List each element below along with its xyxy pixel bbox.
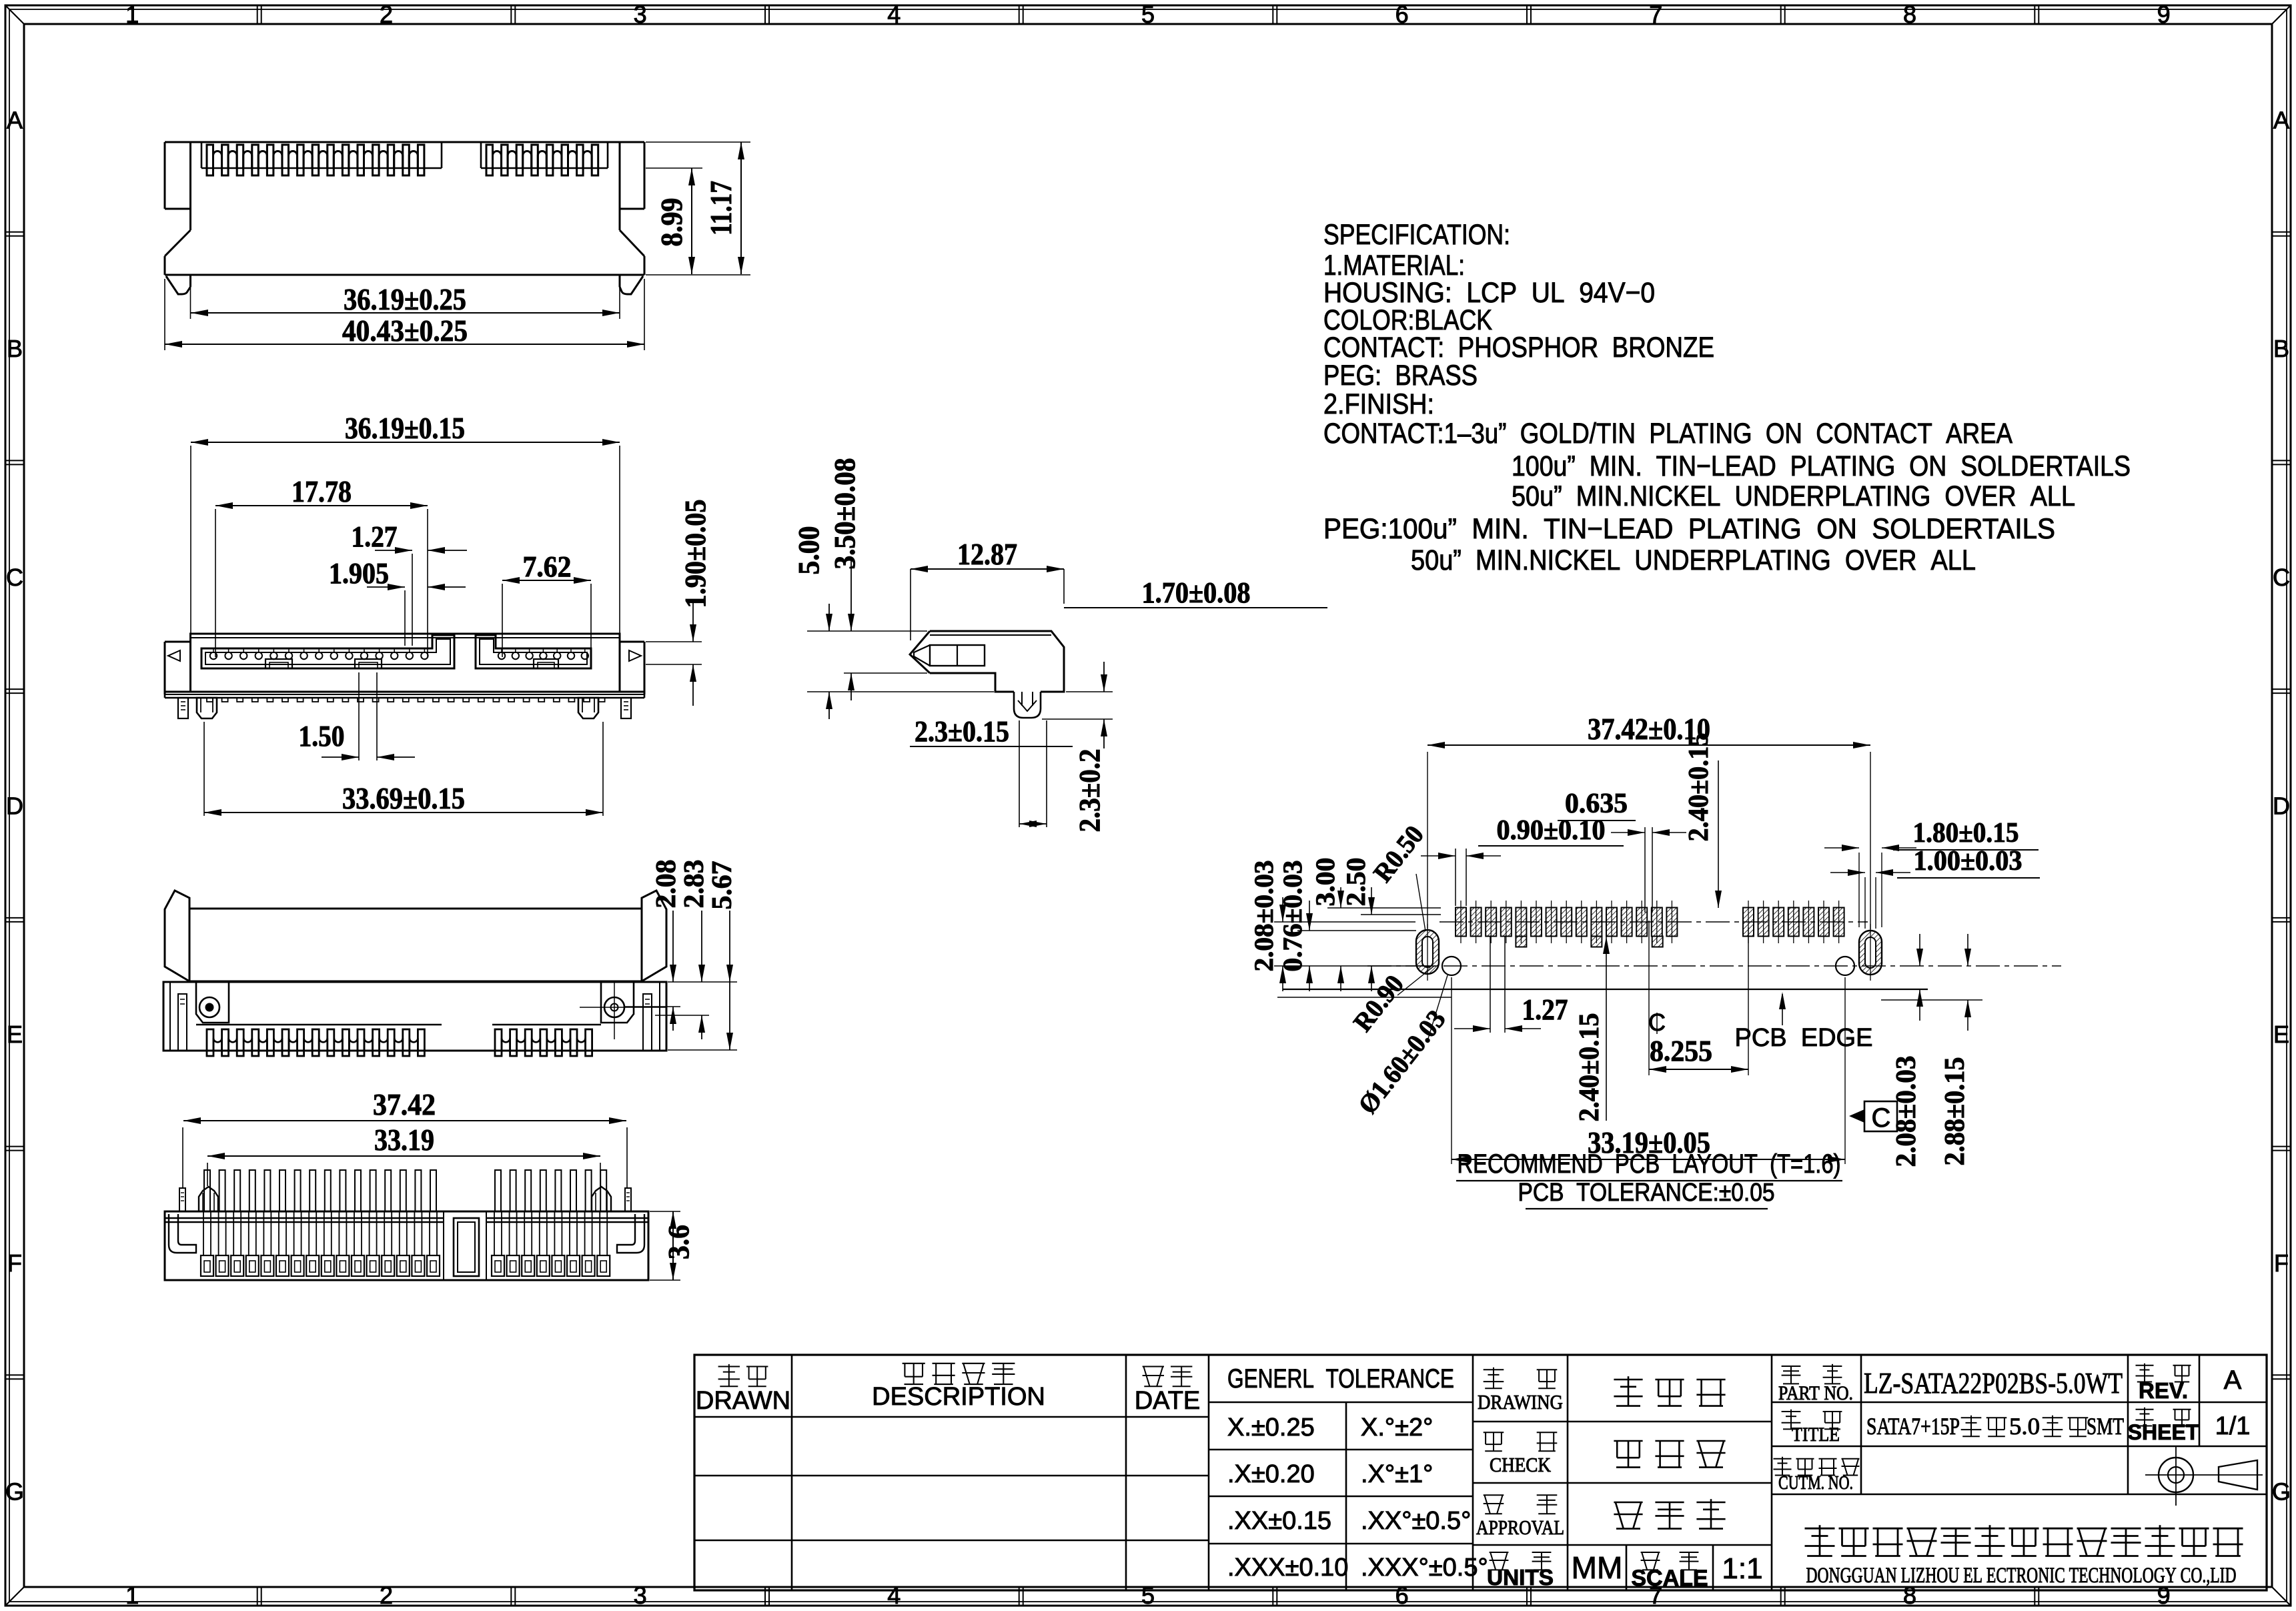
svg-text:DATE: DATE	[1135, 1387, 1201, 1415]
svg-text:PART NO.: PART NO.	[1778, 1382, 1853, 1404]
svg-text:SPECIFICATION:: SPECIFICATION:	[1323, 219, 1510, 251]
svg-text:5.0: 5.0	[2009, 1413, 2040, 1440]
svg-text:6: 6	[1395, 1, 1409, 28]
svg-text:SCALE: SCALE	[1631, 1566, 1708, 1591]
svg-text:3: 3	[634, 1, 647, 28]
svg-text:2.08±0.03: 2.08±0.03	[1891, 1056, 1922, 1167]
svg-text:R0.90: R0.90	[1347, 969, 1409, 1037]
svg-text:B: B	[7, 335, 23, 362]
svg-text:A: A	[2224, 1366, 2242, 1395]
svg-text:1.50: 1.50	[299, 720, 345, 752]
svg-text:7.62: 7.62	[523, 550, 572, 583]
svg-text:F: F	[2274, 1249, 2289, 1277]
svg-text:E: E	[7, 1021, 23, 1048]
svg-text:C: C	[6, 564, 23, 591]
svg-text:A: A	[2273, 106, 2289, 133]
svg-text:4: 4	[887, 1582, 901, 1609]
svg-text:R0.50: R0.50	[1367, 820, 1429, 888]
svg-text:C: C	[1872, 1103, 1891, 1133]
svg-text:1: 1	[125, 1, 139, 28]
svg-text:SHEET: SHEET	[2128, 1420, 2199, 1444]
svg-text:9: 9	[2157, 1, 2171, 28]
svg-text:.X°±1°: .X°±1°	[1361, 1460, 1433, 1488]
svg-text:SATA7+15P: SATA7+15P	[1866, 1413, 1960, 1440]
svg-text:2.FINISH:: 2.FINISH:	[1323, 388, 1434, 420]
svg-text:CUTM. NO.: CUTM. NO.	[1778, 1472, 1853, 1494]
svg-text:TITLE: TITLE	[1792, 1424, 1840, 1446]
svg-text:PEG: BRASS: PEG: BRASS	[1323, 360, 1478, 392]
svg-text:8.99: 8.99	[654, 198, 688, 247]
svg-text:1.80±0.15: 1.80±0.15	[1913, 818, 2019, 849]
svg-text:PCB TOLERANCE:±0.05: PCB TOLERANCE:±0.05	[1518, 1179, 1775, 1207]
svg-text:33.69±0.15: 33.69±0.15	[342, 781, 465, 815]
svg-text:3.50±0.08: 3.50±0.08	[828, 458, 861, 570]
svg-text:.X±0.20: .X±0.20	[1227, 1460, 1315, 1488]
svg-text:G: G	[2272, 1478, 2291, 1506]
svg-text:B: B	[2273, 335, 2289, 362]
svg-text:2.3±0.15: 2.3±0.15	[915, 715, 1009, 748]
svg-text:1:1: 1:1	[1722, 1552, 1762, 1585]
svg-text:CONTACT:1–3u” GOLD/TIN PLATI: CONTACT:1–3u” GOLD/TIN PLATING ON CONTAC…	[1323, 418, 2013, 450]
svg-text:5.67: 5.67	[707, 861, 738, 910]
svg-text:2.50: 2.50	[1341, 858, 1371, 907]
svg-text:6: 6	[1395, 1582, 1409, 1609]
svg-text:1.905: 1.905	[329, 557, 389, 590]
svg-text:DESCRIPTION: DESCRIPTION	[872, 1383, 1045, 1411]
svg-text:4: 4	[887, 1, 901, 28]
svg-text:APPROVAL: APPROVAL	[1476, 1516, 1564, 1539]
svg-text:2.83: 2.83	[679, 860, 710, 909]
svg-text:1.00±0.03: 1.00±0.03	[1914, 846, 2023, 877]
svg-text:D: D	[2273, 792, 2290, 820]
svg-text:CONTACT: PHOSPHOR BRONZE: CONTACT: PHOSPHOR BRONZE	[1323, 332, 1714, 364]
svg-text:2: 2	[380, 1582, 393, 1609]
svg-text:G: G	[5, 1478, 24, 1506]
svg-text:5: 5	[1141, 1, 1155, 28]
svg-text:DRAWN: DRAWN	[696, 1387, 790, 1415]
svg-text:2.88±0.15: 2.88±0.15	[1940, 1057, 1970, 1166]
svg-text:PEG:100u” MIN. TIN−LEAD PLA: PEG:100u” MIN. TIN−LEAD PLATING ON SOLDE…	[1323, 513, 2055, 545]
svg-text:100u” MIN. TIN−LEAD PLATING: 100u” MIN. TIN−LEAD PLATING ON SOLDERTAI…	[1512, 450, 2131, 482]
svg-text:2.3±0.2: 2.3±0.2	[1073, 749, 1106, 833]
svg-text:0.76±0.03: 0.76±0.03	[1277, 861, 1307, 972]
svg-text:F: F	[7, 1249, 22, 1277]
svg-text:3.00: 3.00	[1310, 858, 1340, 907]
svg-text:E: E	[2273, 1021, 2289, 1048]
svg-text:5.00: 5.00	[792, 526, 825, 575]
svg-text:12.87: 12.87	[957, 537, 1017, 571]
svg-text:X.°±2°: X.°±2°	[1361, 1414, 1433, 1442]
svg-text:2: 2	[380, 1, 393, 28]
svg-text:LZ-SATA22P02BS-5.0WT: LZ-SATA22P02BS-5.0WT	[1864, 1367, 2123, 1400]
svg-text:1.27: 1.27	[352, 520, 398, 553]
svg-text:8.255: 8.255	[1650, 1035, 1712, 1067]
svg-text:37.42: 37.42	[373, 1087, 436, 1121]
svg-text:40.43±0.25: 40.43±0.25	[342, 314, 468, 348]
svg-text:REV.: REV.	[2139, 1378, 2188, 1403]
svg-text:1.70±0.08: 1.70±0.08	[1142, 576, 1251, 609]
svg-text:RECOMMEND PCB LAYOUT (T=1.6: RECOMMEND PCB LAYOUT (T=1.6)	[1458, 1149, 1841, 1179]
svg-text:1/1: 1/1	[2215, 1412, 2251, 1440]
svg-text:17.78: 17.78	[292, 474, 352, 508]
svg-text:50u” MIN.NICKEL UNDERPLATING: 50u” MIN.NICKEL UNDERPLATING OVER ALL	[1411, 544, 1976, 576]
svg-text:2.08: 2.08	[651, 860, 682, 909]
svg-text:A: A	[7, 106, 23, 133]
svg-text:GENERL TOLERANCE: GENERL TOLERANCE	[1227, 1364, 1454, 1394]
svg-text:5: 5	[1141, 1582, 1155, 1609]
svg-text:0.90±0.10: 0.90±0.10	[1497, 815, 1606, 846]
svg-text:36.19±0.25: 36.19±0.25	[344, 282, 466, 316]
svg-text:DONGGUAN LIZHOU EL ECTRONIC TE: DONGGUAN LIZHOU EL ECTRONIC TECHNOLOGY C…	[1806, 1564, 2237, 1588]
svg-text:50u” MIN.NICKEL UNDERPLATING: 50u” MIN.NICKEL UNDERPLATING OVER ALL	[1512, 480, 2075, 512]
svg-text:PCB EDGE: PCB EDGE	[1735, 1024, 1873, 1052]
svg-text:X.±0.25: X.±0.25	[1227, 1414, 1315, 1442]
svg-text:.XX°±0.5°: .XX°±0.5°	[1361, 1507, 1471, 1535]
svg-text:UNITS: UNITS	[1487, 1565, 1554, 1590]
svg-text:8: 8	[1903, 1, 1916, 28]
svg-text:7: 7	[1649, 1, 1662, 28]
svg-text:MM: MM	[1572, 1550, 1623, 1585]
svg-text:1: 1	[125, 1582, 139, 1609]
svg-text:DRAWING: DRAWING	[1478, 1390, 1563, 1414]
svg-text:1.27: 1.27	[1522, 993, 1568, 1026]
svg-text:11.17: 11.17	[704, 181, 738, 235]
svg-text:1.90±0.05: 1.90±0.05	[679, 500, 712, 608]
svg-text:.XXX±0.10: .XXX±0.10	[1227, 1554, 1348, 1582]
svg-text:SMT: SMT	[2087, 1413, 2124, 1440]
svg-text:.XX±0.15: .XX±0.15	[1227, 1507, 1331, 1535]
svg-text:2.40±0.15: 2.40±0.15	[1574, 1013, 1605, 1122]
svg-text:3.6: 3.6	[662, 1225, 695, 1259]
svg-text:CHECK: CHECK	[1490, 1453, 1552, 1476]
svg-text:.XXX°±0.5°: .XXX°±0.5°	[1361, 1554, 1488, 1582]
svg-text:C: C	[2273, 564, 2290, 591]
svg-text:36.19±0.15: 36.19±0.15	[345, 411, 465, 445]
svg-text:D: D	[6, 792, 23, 820]
svg-text:2.08±0.03: 2.08±0.03	[1249, 861, 1279, 972]
svg-text:2.40±0.15: 2.40±0.15	[1684, 733, 1714, 842]
svg-text:3: 3	[634, 1582, 647, 1609]
svg-text:33.19: 33.19	[374, 1123, 434, 1157]
